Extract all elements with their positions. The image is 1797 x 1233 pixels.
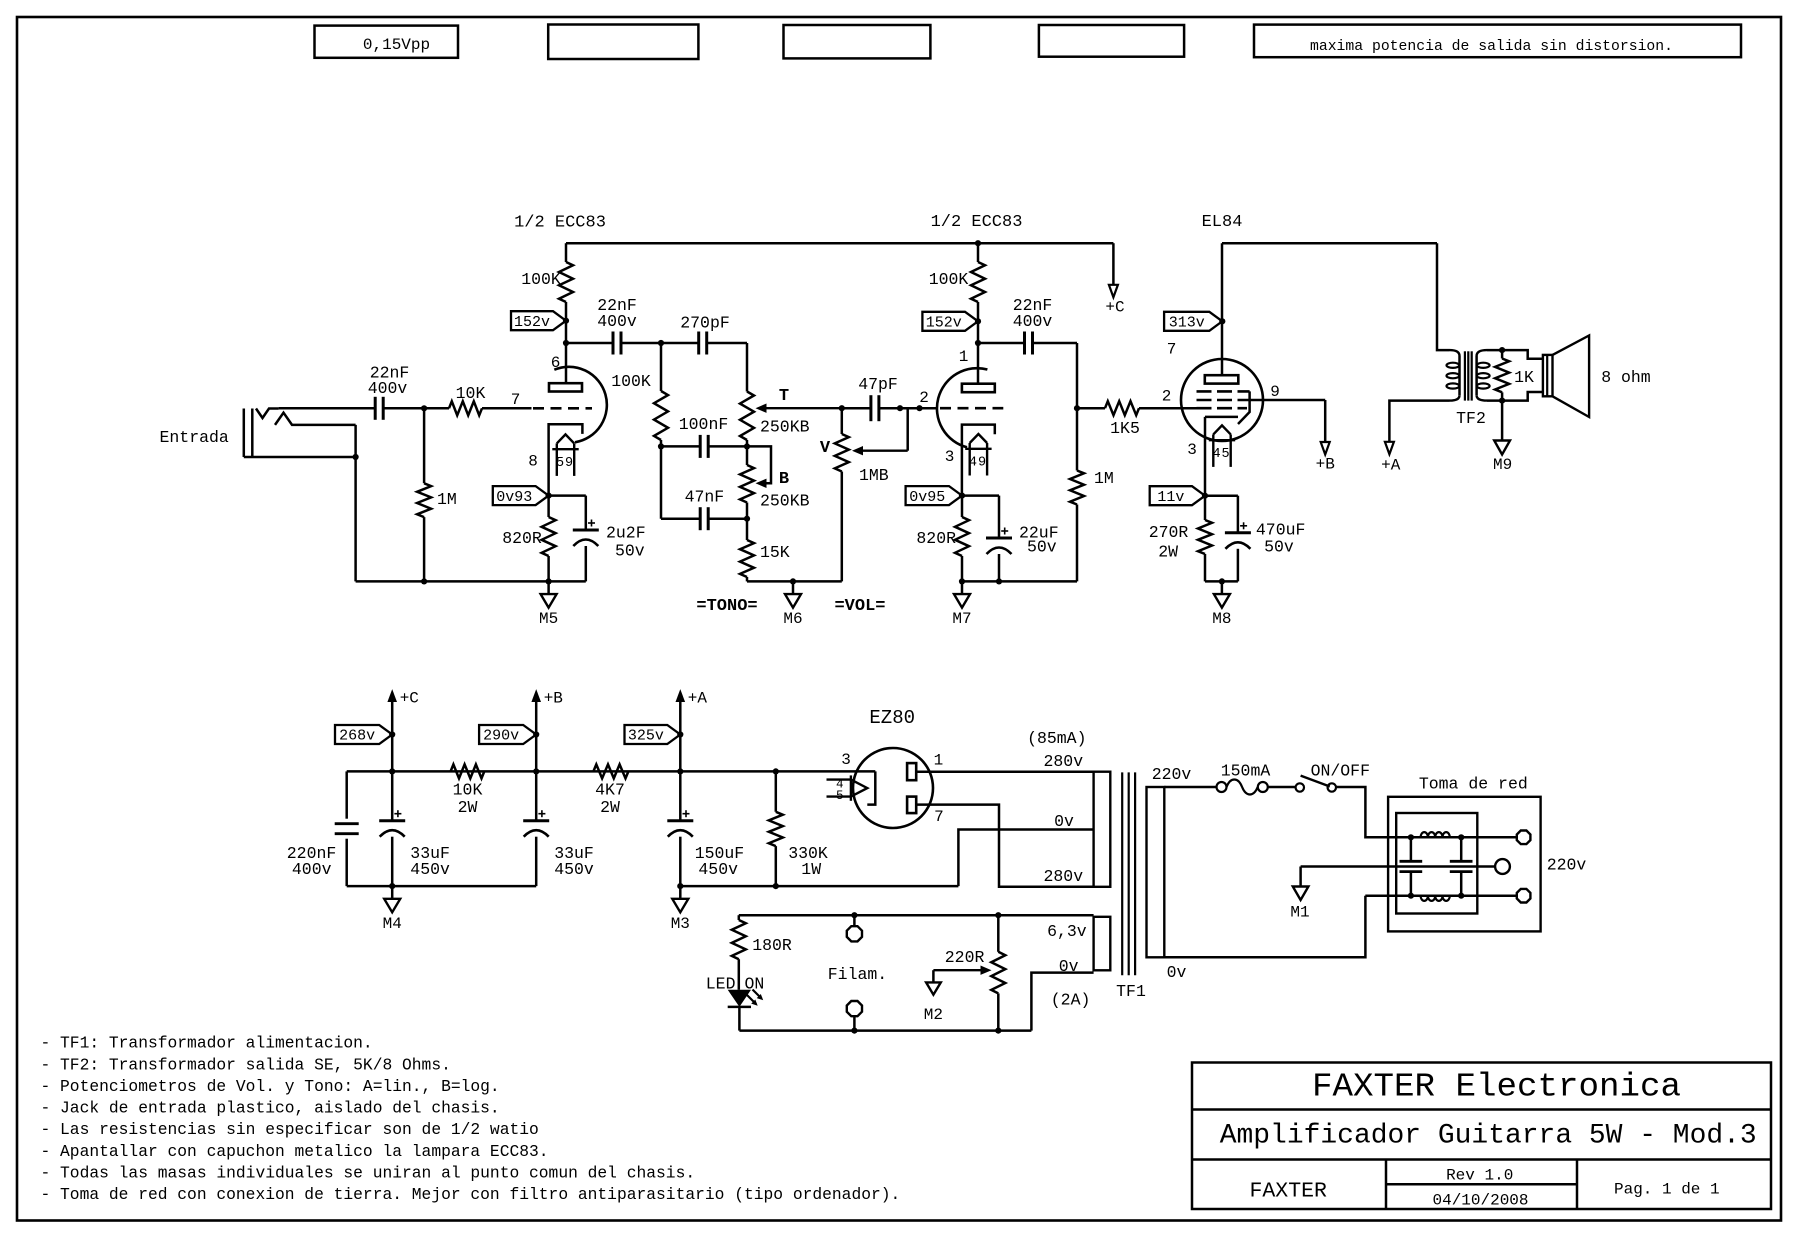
wire EZ80 pin7: [916, 805, 1093, 887]
EL84 g1 (dashed): [1197, 407, 1248, 410]
svg-text:(85mA): (85mA): [1027, 729, 1086, 748]
svg-text:M3: M3: [671, 915, 690, 933]
svg-text:M2: M2: [924, 1006, 943, 1024]
EL84 g2 screen (dashed): [1197, 399, 1241, 402]
svg-text:04/10/2008: 04/10/2008: [1432, 1192, 1528, 1210]
svg-text:400v: 400v: [1013, 312, 1053, 331]
wire EZ80 pin1 to TF1: [916, 770, 1093, 773]
resistor 1M input: [423, 408, 426, 483]
svg-text:+A: +A: [1381, 457, 1401, 475]
svg-text:150mA: 150mA: [1221, 762, 1271, 781]
resistor 1K damping: [1495, 359, 1509, 393]
svg-text:820R: 820R: [502, 529, 542, 548]
svg-text:+B: +B: [544, 690, 563, 708]
flag 325v: [625, 725, 681, 744]
svg-text:820R: 820R: [916, 529, 956, 548]
tone ground rail: [747, 580, 842, 583]
wire node to 270pF: [661, 342, 699, 345]
V1a anode plate: [549, 383, 582, 391]
svg-text:2: 2: [919, 389, 929, 407]
svg-text:152v: 152v: [514, 314, 550, 331]
svg-text:FAXTER: FAXTER: [1249, 1180, 1327, 1204]
svg-text:M7: M7: [952, 610, 971, 628]
svg-text:280v: 280v: [1043, 867, 1083, 886]
speaker cone: [1553, 336, 1590, 418]
node M6: [790, 578, 796, 584]
node 313v tip: [1219, 318, 1225, 324]
power rail: [347, 770, 876, 773]
node 325v tip: [677, 731, 683, 737]
svg-text:- TF1: Transformador alimentac: - TF1: Transformador alimentacion.: [41, 1034, 373, 1053]
node +B rail: [533, 768, 539, 774]
arrow +A up: [676, 689, 686, 702]
svg-text:1W: 1W: [801, 860, 821, 879]
svg-text:maxima potencia de salida sin: maxima potencia de salida sin distorsion…: [1310, 38, 1673, 55]
pot T 250KB tone treble: [740, 392, 754, 441]
filter top inductor: [1421, 832, 1450, 837]
svg-text:220v: 220v: [1152, 765, 1192, 784]
flag 290v: [479, 725, 536, 744]
svg-text:7: 7: [934, 808, 944, 826]
svg-text:3: 3: [945, 448, 955, 466]
pot B 250KB tone bass: [746, 446, 749, 465]
top box 0,15Vpp: [315, 26, 459, 58]
wire jack sleeve down: [354, 425, 357, 582]
filter bottom inductor: [1421, 896, 1450, 901]
filter X-cap right: [1460, 837, 1463, 861]
wire secondary top to speaker: [1487, 350, 1543, 359]
input jack Entrada: [243, 409, 246, 458]
svg-text:0v: 0v: [1054, 812, 1074, 831]
capacitor 220nF 400v: [345, 771, 348, 818]
node T wiper junction: [839, 405, 845, 411]
svg-text:0v93: 0v93: [496, 489, 532, 506]
wire C4 to EL84 grid node: [1033, 342, 1078, 345]
ground wire middle: [1301, 865, 1496, 868]
top box 2 (empty): [548, 25, 698, 60]
arrow +C up: [387, 689, 397, 702]
resistor 180R: [738, 915, 741, 920]
svg-text:250KB: 250KB: [760, 492, 810, 511]
svg-text:290v: 290v: [483, 728, 519, 745]
switch ON/OFF: [1296, 783, 1304, 791]
filter nodes: [1408, 834, 1414, 840]
svg-text:TF1: TF1: [1116, 982, 1146, 1001]
node 220R top: [995, 912, 1001, 918]
node M3: [677, 883, 683, 889]
svg-text:1M: 1M: [1094, 469, 1114, 488]
TF2 primary bumps: [1447, 363, 1460, 368]
terminal top: [1517, 831, 1531, 845]
TF1 primary winding box: [1147, 787, 1165, 957]
svg-text:2W: 2W: [458, 798, 478, 817]
ground M5: [547, 581, 550, 594]
node 268v tip: [389, 731, 395, 737]
svg-text:6,3v: 6,3v: [1047, 922, 1087, 941]
node 152v tip V1b: [975, 318, 981, 324]
TF2 bottom lead to +A: [1389, 401, 1449, 441]
svg-text:400v: 400v: [597, 312, 637, 331]
svg-text:1K: 1K: [1514, 368, 1534, 387]
TF1 HV winding box: [1094, 772, 1111, 887]
svg-text:2u2F: 2u2F: [606, 524, 646, 543]
svg-text:7: 7: [511, 391, 521, 409]
svg-text:100nF: 100nF: [679, 415, 729, 434]
filter top line: [1411, 836, 1516, 839]
svg-text:Entrada: Entrada: [160, 428, 229, 447]
resistor 1M grid EL84: [1076, 408, 1079, 470]
svg-text:47nF: 47nF: [685, 488, 725, 507]
svg-text:0v: 0v: [1167, 963, 1187, 982]
node V1a anode: [563, 340, 569, 346]
node EL84 cathode: [1202, 493, 1208, 499]
svg-text:400v: 400v: [368, 379, 408, 398]
ground M7: [961, 581, 964, 594]
svg-text:ON: ON: [745, 975, 765, 994]
svg-text:9: 9: [978, 456, 986, 471]
svg-text:268v: 268v: [339, 728, 375, 745]
svg-text:+A: +A: [688, 690, 708, 708]
resistor 100K tone: [660, 343, 663, 391]
ground M2: [932, 970, 935, 982]
svg-text:B: B: [779, 470, 789, 489]
resistor 270R 2W cathode EL84: [1204, 496, 1207, 520]
capacitor 47pF: [842, 407, 871, 410]
svg-text:Filam.: Filam.: [828, 965, 887, 984]
pot V 1MB volume: [841, 408, 844, 434]
+C feed wire: [1112, 243, 1115, 285]
flag 152v V1b anode: [922, 312, 978, 331]
terminal middle: [1495, 859, 1510, 874]
wire secondary bottom to speaker: [1487, 392, 1543, 401]
resistor 1K5 grid stopper EL84: [1077, 407, 1105, 410]
tube V1b 1/2 ECC83 envelope: [937, 368, 987, 447]
svg-text:ON/OFF: ON/OFF: [1311, 762, 1370, 781]
svg-text:M1: M1: [1290, 904, 1309, 922]
ground M1: [1293, 887, 1309, 901]
TF1 heater winding box: [1094, 917, 1111, 971]
svg-text:220v: 220v: [1547, 856, 1587, 875]
resistor 10K 2W: [451, 764, 485, 778]
svg-text:EL84: EL84: [1202, 213, 1243, 232]
node 1K top: [1499, 347, 1505, 353]
svg-text:8 ohm: 8 ohm: [1601, 368, 1651, 387]
svg-text:100K: 100K: [521, 270, 561, 289]
V1a cathode: [549, 424, 583, 495]
svg-text:50v: 50v: [615, 542, 645, 561]
svg-text:100K: 100K: [611, 372, 651, 391]
wire connector bottom to TF1: [1365, 894, 1516, 897]
wire 270pF to T pot: [707, 342, 747, 345]
node 330K bottom: [773, 883, 779, 889]
EZ80 anode box pin1: [907, 763, 916, 780]
svg-text:450v: 450v: [698, 860, 738, 879]
heater bottom rail: [739, 1029, 1031, 1032]
V1b heater pins 4,9: [970, 434, 987, 443]
EL84 screen wire to +B: [1240, 399, 1325, 402]
svg-text:M8: M8: [1212, 610, 1231, 628]
svg-text:1MB: 1MB: [859, 466, 889, 485]
svg-text:10K: 10K: [453, 781, 483, 800]
terminal bottom: [1517, 889, 1531, 903]
TF2 secondary: [1477, 350, 1487, 356]
node tone input: [658, 340, 664, 346]
arrow +B down: [1321, 442, 1330, 455]
EL84 anode plate: [1205, 375, 1239, 383]
svg-text:325v: 325v: [628, 728, 664, 745]
EL84 g3 (dashed): [1197, 390, 1250, 393]
node 47nF right: [744, 516, 750, 522]
tube EZ80 envelope: [853, 748, 933, 828]
svg-text:- Potenciometros de Vol. y Ton: - Potenciometros de Vol. y Tono: A=lin.,…: [41, 1077, 500, 1096]
svg-text:1M: 1M: [437, 490, 457, 509]
arrow +B up: [531, 689, 541, 702]
capacitor 22nF 400v coupling V1a: [612, 332, 615, 355]
capacitor 150uF 450v: [679, 771, 682, 820]
stage1 ground rail: [356, 580, 586, 583]
svg-text:1/2 ECC83: 1/2 ECC83: [931, 213, 1023, 232]
Toma de red outer box: [1388, 797, 1541, 932]
svg-text:15K: 15K: [760, 543, 790, 562]
svg-text:+C: +C: [400, 690, 419, 708]
svg-text:Rev 1.0: Rev 1.0: [1446, 1167, 1513, 1185]
svg-text:=VOL=: =VOL=: [834, 597, 885, 616]
svg-text:450v: 450v: [410, 860, 450, 879]
svg-text:8: 8: [528, 453, 538, 471]
flag 11v EL84 cathode: [1150, 486, 1205, 505]
ground rail A: [347, 885, 537, 888]
svg-text:M5: M5: [539, 610, 558, 628]
wire switch to connector: [1336, 787, 1411, 837]
svg-text:LED: LED: [706, 975, 736, 994]
EZ80 heater pins 4,5: [851, 780, 867, 797]
capacitor 2u2F 50v: [549, 494, 586, 497]
top rail left (+C rail): [566, 242, 1113, 245]
svg-text:7: 7: [1167, 341, 1177, 359]
node 100nF left: [658, 443, 664, 449]
svg-text:50v: 50v: [1027, 538, 1057, 557]
node V1b anode: [975, 340, 981, 346]
svg-text:9: 9: [565, 456, 573, 471]
svg-text:- Todas las masas individuales: - Todas las masas individuales se uniran…: [41, 1163, 696, 1182]
EL84 g3 to cathode hook: [1238, 391, 1250, 424]
title block: [1192, 1063, 1771, 1210]
arrow +A down: [1385, 442, 1394, 455]
svg-text:10K: 10K: [456, 384, 486, 403]
EL84 anode lead: [1221, 243, 1224, 375]
svg-text:3: 3: [1187, 441, 1197, 459]
svg-text:270R: 270R: [1149, 523, 1189, 542]
ground M4: [391, 886, 394, 899]
node 47pF out: [897, 405, 903, 411]
V1b anode lead: [977, 343, 980, 384]
node 330K top: [773, 768, 779, 774]
EL84 cathode ground rail: [1205, 580, 1238, 583]
svg-text:M6: M6: [783, 610, 802, 628]
capacitor 22nF 400v coupling V1b: [1023, 332, 1026, 355]
EZ80 cathode: [867, 771, 875, 804]
node M8: [1219, 578, 1225, 584]
svg-text:2: 2: [1162, 388, 1172, 406]
svg-text:47pF: 47pF: [858, 375, 898, 394]
V1b cathode: [962, 425, 995, 496]
node M5: [546, 578, 552, 584]
V1a grid (dashed): [533, 407, 592, 410]
svg-text:313v: 313v: [1169, 315, 1205, 332]
svg-text:220R: 220R: [945, 948, 985, 967]
svg-text:11v: 11v: [1157, 489, 1184, 506]
ground rail B: [680, 885, 958, 888]
node EL84 grid junction: [1074, 405, 1080, 411]
svg-text:M9: M9: [1493, 456, 1512, 474]
svg-text:T: T: [779, 387, 789, 406]
filter X-cap left: [1410, 837, 1413, 861]
resistor 10K grid stopper: [449, 401, 482, 415]
pot 220R hum: [997, 915, 1000, 952]
capacitor 33uF 450v first: [391, 771, 394, 820]
top box maxima potencia: [1254, 25, 1741, 58]
V1a anode lead: [565, 343, 568, 383]
svg-text:- Jack de entrada plastico, ai: - Jack de entrada plastico, aislado del …: [41, 1099, 500, 1118]
svg-text:Pag. 1 de 1: Pag. 1 de 1: [1614, 1181, 1720, 1199]
EL84 cathode bar: [1205, 416, 1238, 419]
node 290v tip: [533, 731, 539, 737]
node 22uF bottom: [996, 578, 1002, 584]
node 152v tip: [563, 318, 569, 324]
node V1a cathode: [546, 493, 552, 499]
V1b anode plate: [962, 384, 995, 393]
svg-text:100K: 100K: [929, 270, 969, 289]
ground M6: [792, 581, 795, 594]
svg-text:6: 6: [551, 354, 561, 372]
LED ON indicator: [728, 990, 751, 1007]
svg-text:270pF: 270pF: [680, 314, 730, 333]
flag 313v EL84 anode: [1164, 312, 1222, 331]
capacitor 270pF: [697, 332, 700, 355]
resistor 330K 1W: [775, 771, 778, 811]
wire C2 to tone node: [621, 342, 661, 345]
svg-text:0,15Vpp: 0,15Vpp: [363, 36, 430, 54]
capacitor 470uF 50v: [1205, 494, 1238, 497]
node jack sleeve: [353, 454, 359, 460]
EL84 heater pins 4,5: [1213, 425, 1230, 434]
resistor 100K anode V1a: [565, 243, 568, 262]
wire anode V1b to C4: [978, 342, 1025, 345]
TF1 core: [1121, 772, 1123, 975]
svg-text:- Toma de red con conexion de: - Toma de red con conexion de tierra. Me…: [41, 1185, 901, 1204]
svg-text:TF2: TF2: [1456, 409, 1486, 428]
top box 3 (empty): [784, 25, 931, 58]
flag 0v93 V1a cathode: [493, 486, 549, 505]
wire fuse to switch: [1268, 786, 1296, 789]
node Filam bottom: [851, 1028, 857, 1034]
node top rail V1b: [975, 240, 981, 246]
resistor 820R V1b: [961, 496, 964, 517]
wire C1 to node: [383, 407, 449, 410]
svg-text:Toma de red: Toma de red: [1419, 775, 1528, 794]
svg-text:9: 9: [1270, 383, 1280, 401]
node M4: [389, 883, 395, 889]
wire TF1 primary top to fuse: [1164, 786, 1216, 789]
svg-text:180R: 180R: [752, 936, 792, 955]
svg-text:4K7: 4K7: [595, 781, 625, 800]
V1b grid (dashed): [940, 407, 1003, 410]
heater rail 6,3v: [739, 914, 1094, 917]
wire V wiper riser: [906, 408, 909, 451]
capacitor 47nF tone: [661, 517, 700, 520]
svg-text:- Las resistencias sin especif: - Las resistencias sin especificar son d…: [41, 1120, 539, 1139]
terminal Filam bottom: [847, 1001, 862, 1016]
svg-text:5: 5: [836, 789, 844, 803]
tube V1a 1/2 ECC83 envelope: [554, 367, 607, 443]
svg-text:1: 1: [959, 348, 969, 366]
svg-text:0v95: 0v95: [909, 489, 945, 506]
resistor 820R V1a: [547, 496, 550, 517]
EMI filter box: [1396, 813, 1477, 914]
speaker driver: [1543, 355, 1553, 396]
top box 4 (empty): [1039, 25, 1184, 57]
tube EL84 envelope: [1181, 359, 1263, 441]
resistor 15K tone: [746, 519, 749, 540]
svg-text:1: 1: [934, 751, 944, 769]
svg-text:3: 3: [841, 751, 851, 769]
top rail right (EL84/TF2): [1222, 242, 1437, 245]
svg-text:5: 5: [556, 456, 564, 471]
svg-text:(2A): (2A): [1051, 991, 1091, 1010]
svg-text:M4: M4: [383, 915, 402, 933]
arrow +C down: [1109, 285, 1118, 298]
V1a heater pins 5,9: [557, 434, 574, 443]
svg-text:250KB: 250KB: [760, 418, 810, 437]
svg-text:+C: +C: [1105, 299, 1124, 317]
fuse 150mA: [1217, 782, 1227, 792]
ground M8: [1221, 581, 1224, 594]
terminal Filam top: [853, 915, 856, 925]
node +C rail: [389, 768, 395, 774]
svg-text:2W: 2W: [600, 798, 620, 817]
node Filam top: [851, 912, 857, 918]
EZ80 anode box pin7: [907, 797, 916, 814]
svg-text:- TF2: Transformador salida SE: - TF2: Transformador salida SE, 5K/8 Ohm…: [41, 1055, 451, 1074]
flag 268v: [335, 725, 392, 744]
svg-text:=TONO=: =TONO=: [696, 597, 757, 616]
flag 0v95 V1b cathode: [906, 486, 962, 505]
svg-text:FAXTER Electronica: FAXTER Electronica: [1312, 1069, 1681, 1107]
flag 152v V1a anode: [511, 311, 566, 330]
capacitor 33uF 450v second: [535, 771, 538, 820]
svg-text:2W: 2W: [1158, 543, 1178, 562]
ground M3: [679, 886, 682, 899]
capacitor 100nF tone: [661, 445, 700, 448]
svg-text:5: 5: [1222, 447, 1230, 462]
node 220R bottom: [995, 1028, 1001, 1034]
node T-B junction: [744, 443, 750, 449]
filter bottom line: [1411, 894, 1516, 897]
node 1K bottom: [1499, 398, 1505, 404]
capacitor 22uF 50v: [962, 494, 999, 497]
wire heater 0v tap: [1031, 973, 1093, 1031]
svg-text:4: 4: [969, 456, 977, 471]
node 1M bottom: [421, 578, 427, 584]
svg-text:50v: 50v: [1264, 538, 1294, 557]
wire anode to C2: [566, 342, 613, 345]
svg-text:Amplificador Guitarra 5W - Mod: Amplificador Guitarra 5W - Mod.3: [1220, 1121, 1757, 1152]
svg-text:152v: 152v: [926, 315, 962, 332]
svg-text:1K5: 1K5: [1110, 419, 1140, 438]
ground M9: [1501, 401, 1504, 441]
capacitor 22nF 400v input: [374, 397, 377, 420]
svg-text:280v: 280v: [1043, 752, 1083, 771]
